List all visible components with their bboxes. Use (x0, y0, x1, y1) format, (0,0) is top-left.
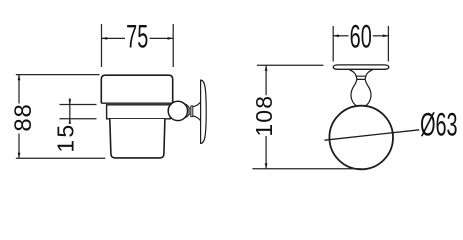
dim 60: dimension line right segment (373, 35, 389, 37)
mounting ball (side view) (168, 101, 187, 120)
dim 15: arrow top (outside, pointing down) (69, 100, 72, 105)
svg-text:75: 75 (126, 18, 148, 54)
cup rim (upper section, side view) (101, 75, 172, 103)
svg-text:88: 88 (10, 103, 37, 131)
svg-text:60: 60 (350, 18, 372, 54)
dim 15: arrow bottom (outside, pointing up) (69, 119, 72, 124)
dim 88: dimension line upper segment (18, 75, 20, 104)
leader line for diameter 63 (325, 130, 420, 140)
dim 75: extension line left (101, 24, 103, 67)
dim 60: dimension line left segment (333, 35, 348, 37)
dim 75: extension line right (172, 24, 174, 67)
dim 88: arrow top (18, 75, 21, 81)
dim 15: extension line bottom (60, 118, 97, 120)
dim 108: arrow bottom (265, 163, 268, 169)
knob / ball front view (349, 69, 374, 79)
wall plate (side view) (201, 80, 207, 143)
dim 108: dimension line upper segment (265, 65, 267, 95)
dim 60: extension line right (387, 26, 389, 62)
dim 108: extension line top (257, 64, 324, 66)
dim 60: arrow right (383, 34, 389, 37)
dim 75: arrow left (102, 37, 108, 40)
svg-text:Ø63: Ø63 (420, 106, 457, 142)
dim 88: dimension line lower segment (18, 134, 20, 159)
dim 108: dimension line lower segment (265, 136, 267, 169)
dim 88: extension line top (16, 74, 100, 76)
svg-text:15: 15 (52, 123, 78, 153)
neck cylinder (side view) (189, 108, 191, 114)
dim 75: dimension line right segment (150, 37, 174, 39)
knob vase body front view (351, 79, 371, 105)
dim 60: extension line left (332, 26, 334, 62)
dim 108: arrow top (265, 65, 268, 71)
dim 75: dimension line left segment (102, 37, 126, 39)
wall plate edge-on (front view top) (333, 65, 389, 69)
dim 60: arrow left (333, 34, 339, 37)
cup rim bottom line (101, 102, 172, 104)
tumbler circle front view (329, 106, 393, 170)
holder ring (side view) (107, 105, 171, 119)
dim 88: arrow bottom (18, 153, 21, 159)
trumpet base flare (side view) (193, 102, 201, 121)
dim 88: extension line bottom (16, 157, 106, 159)
dim 108: extension line bottom (252, 168, 361, 170)
dim 15: extension line top (60, 104, 97, 106)
cup body (tapered, side view) (110, 119, 165, 158)
dim 75: arrow right (168, 37, 174, 40)
flange disc (side view) (191, 106, 193, 117)
neck pinch curves (side view) (184, 104, 189, 118)
svg-text:108: 108 (251, 95, 277, 137)
dim 15: dimension line vertical (69, 98, 71, 123)
